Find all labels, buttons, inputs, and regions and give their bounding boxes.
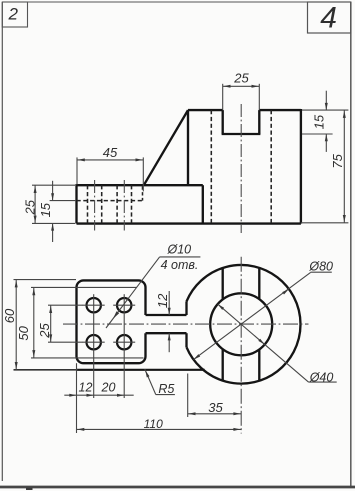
svg-text:12: 12 xyxy=(155,293,170,308)
svg-text:15: 15 xyxy=(312,114,327,129)
callout leader arrowhead xyxy=(113,311,119,318)
dim 50 bottom extension xyxy=(31,357,144,359)
dim R5 arrowhead xyxy=(145,370,149,377)
plan hole bottom-right horizontal crosshair xyxy=(113,341,135,343)
dim 60 bottom extension xyxy=(14,369,78,371)
front hidden neck corner vertical xyxy=(142,186,144,200)
svg-text:R5: R5 xyxy=(158,382,174,396)
front hidden hole1 left edge xyxy=(87,185,89,223)
dim 15L lower line xyxy=(52,223,54,242)
front hidden hole2 left edge xyxy=(116,185,118,223)
dim 110 arrow right xyxy=(233,428,240,431)
plan hole top-left circle xyxy=(87,298,101,312)
dim 15R lower line xyxy=(325,134,327,152)
dim 15R top extension xyxy=(302,109,348,111)
dim 25T line xyxy=(223,85,260,87)
svg-text:25: 25 xyxy=(23,199,38,215)
plan horizontal axis centerline xyxy=(63,323,309,325)
dim D40 diagonal line xyxy=(218,304,309,382)
dim 110 arrow left xyxy=(77,428,84,431)
dim 75 bottom extension xyxy=(301,222,349,224)
svg-text:45: 45 xyxy=(103,145,118,160)
dim 45 arrow left xyxy=(78,158,85,161)
svg-text:25: 25 xyxy=(37,323,52,339)
front hidden hole1 right edge xyxy=(101,185,103,223)
svg-text:2: 2 xyxy=(7,5,18,24)
dim 25L arrow top xyxy=(34,186,37,193)
dim R5 leader xyxy=(145,369,156,395)
front view step vertical edge xyxy=(202,185,204,223)
dim 15L middle extension xyxy=(50,200,76,202)
dim 25L top extension xyxy=(32,184,75,186)
dim 50 arrow top xyxy=(32,288,35,295)
corner box 2 border xyxy=(2,2,27,27)
plan hole top-left horizontal crosshair xyxy=(83,304,105,306)
page bottom nub xyxy=(26,488,33,490)
dim D40 arrow lower-right xyxy=(258,339,264,345)
front view slot left side xyxy=(222,110,224,134)
plan flat chord lower segment xyxy=(185,333,187,347)
dim 60 line xyxy=(15,280,17,370)
svg-text:15: 15 xyxy=(38,202,53,217)
dim 12-20 arrow at second column xyxy=(117,394,124,397)
svg-text:12: 12 xyxy=(79,380,93,394)
svg-text:4: 4 xyxy=(320,2,337,35)
dim 15R upper line xyxy=(325,91,327,110)
dim 15L arrow top xyxy=(51,193,54,200)
dim 12-20 arrow at first column xyxy=(87,394,94,397)
front hidden bore right edge xyxy=(270,110,272,224)
dim 75 line xyxy=(343,110,345,223)
dim 15R arrow bottom xyxy=(325,134,328,141)
front hole2 centerline xyxy=(123,180,125,231)
dim 110 left extension xyxy=(76,363,78,433)
dim 75 arrow bottom xyxy=(343,215,346,222)
dim 15L upper line xyxy=(52,181,54,201)
front cylinder axis centerline xyxy=(240,104,242,233)
plan vertical axis centerline xyxy=(240,257,242,434)
front view block top edge right segment xyxy=(259,109,301,111)
dim 25P arrow bottom xyxy=(49,334,52,341)
dim 35 line xyxy=(188,413,242,415)
page frame right edge xyxy=(350,2,352,487)
dim 50 top extension xyxy=(31,286,137,288)
dim 60 arrow bottom xyxy=(15,362,18,369)
dim 25P arrow top xyxy=(49,306,52,313)
corner box 4 border xyxy=(308,2,351,33)
svg-text:110: 110 xyxy=(144,417,163,431)
dim 25T right extension xyxy=(258,84,260,110)
dim 45 left extension xyxy=(76,157,78,184)
plan neck bottom edge xyxy=(146,332,187,334)
plan hole bottom-left circle xyxy=(87,335,101,349)
svg-text:Ø40: Ø40 xyxy=(309,371,334,385)
front hidden neck top edge xyxy=(77,200,143,202)
dim 12-20 line xyxy=(64,394,133,396)
plan flat chord upper segment xyxy=(185,301,187,315)
front view base bottom edge xyxy=(77,222,301,224)
dim 45 line xyxy=(77,159,143,161)
dim 25L bottom extension xyxy=(32,222,75,224)
svg-text:Ø10: Ø10 xyxy=(166,243,191,257)
front view rib diagonal xyxy=(144,110,188,185)
plan hole bottom-right circle xyxy=(117,335,131,349)
plan hole bottom-left horizontal crosshair xyxy=(83,341,105,343)
dim 12-20 arrow at plate edge xyxy=(69,394,76,397)
dim D80 shelf xyxy=(311,271,332,273)
plan plate outline with R5 corners xyxy=(77,280,146,363)
dim 25T arrow left xyxy=(223,85,230,88)
dim 12N upper line xyxy=(168,291,170,315)
svg-text:4 отв.: 4 отв. xyxy=(161,258,199,272)
dim 25L arrow bottom xyxy=(34,216,37,223)
plan base bottom edge xyxy=(77,369,205,371)
plan slot edge left lower chord xyxy=(222,349,224,380)
page frame top edge xyxy=(2,1,351,3)
front view block top edge left segment xyxy=(188,109,223,111)
dim 110 line xyxy=(77,428,242,430)
dim 25P line xyxy=(50,305,52,342)
dim 25P bottom extension xyxy=(48,341,83,343)
dim 25T left extension xyxy=(222,84,224,110)
dim 75 arrow top xyxy=(343,111,346,118)
dim 45 arrow right xyxy=(136,158,143,161)
svg-text:60: 60 xyxy=(2,308,17,323)
svg-text:20: 20 xyxy=(101,380,116,394)
plan slot edge left upper chord xyxy=(222,268,224,299)
front view block right edge xyxy=(300,109,302,224)
front view slot bottom xyxy=(222,133,261,135)
dim 15R bottom extension xyxy=(302,133,333,135)
dim 60 arrow top xyxy=(15,280,18,287)
dim 12N arrow top xyxy=(168,308,171,315)
dim 60 top extension xyxy=(14,279,77,281)
dim D80 diagonal line xyxy=(194,272,311,359)
dim 25T arrow right xyxy=(252,85,259,88)
dim 25L line xyxy=(34,185,36,223)
dim D80 arrow lower-left xyxy=(194,354,201,360)
callout leader line xyxy=(106,257,160,328)
plan hole column 2 centerline xyxy=(123,294,125,398)
front hidden bore left edge xyxy=(210,110,212,224)
svg-text:25: 25 xyxy=(233,71,249,86)
svg-text:50: 50 xyxy=(16,325,31,340)
plan inner bore circle xyxy=(210,293,272,355)
plan hole column 1 centerline xyxy=(93,294,95,398)
plan cylinder outer circle arc xyxy=(187,265,301,384)
callout shelf xyxy=(160,256,201,258)
dim 12N lower line xyxy=(168,333,170,352)
dim 50 line xyxy=(33,287,35,358)
front view plate left edge xyxy=(75,184,77,224)
dim 35 left extension xyxy=(187,374,189,418)
plan slot edge right upper chord xyxy=(258,268,260,299)
plan neck top edge xyxy=(146,314,187,316)
dim R5 shelf xyxy=(156,394,175,396)
page frame left edge xyxy=(1,2,3,481)
dim D40 shelf xyxy=(309,381,337,383)
dim D40 arrow upper-left xyxy=(218,304,224,310)
svg-text:Ø80: Ø80 xyxy=(308,260,333,274)
dim D80 arrow upper-right xyxy=(282,289,289,295)
dim 35 arrow right xyxy=(233,412,240,415)
dim 35 arrow left xyxy=(188,412,195,415)
dim 45 right extension xyxy=(142,157,144,191)
dim 12N arrow bottom xyxy=(168,333,171,340)
front view cylinder flat left edge xyxy=(187,110,189,185)
front view plate top edge xyxy=(77,184,203,186)
dim 15L arrow bottom xyxy=(51,223,54,230)
plan slot edge right lower chord xyxy=(258,350,260,381)
svg-text:75: 75 xyxy=(330,153,345,168)
front hidden hole2 right edge xyxy=(131,185,133,223)
front hole1 centerline xyxy=(94,180,96,231)
plan hole top-right horizontal crosshair xyxy=(113,304,135,306)
dim 15R arrow top xyxy=(325,103,328,110)
front view slot right side xyxy=(258,110,260,134)
svg-text:35: 35 xyxy=(208,400,223,415)
plan hole top-right circle xyxy=(117,298,131,312)
dim 50 arrow bottom xyxy=(32,350,35,357)
page frame bottom edge xyxy=(0,486,355,489)
dim 25P top extension xyxy=(48,304,83,306)
